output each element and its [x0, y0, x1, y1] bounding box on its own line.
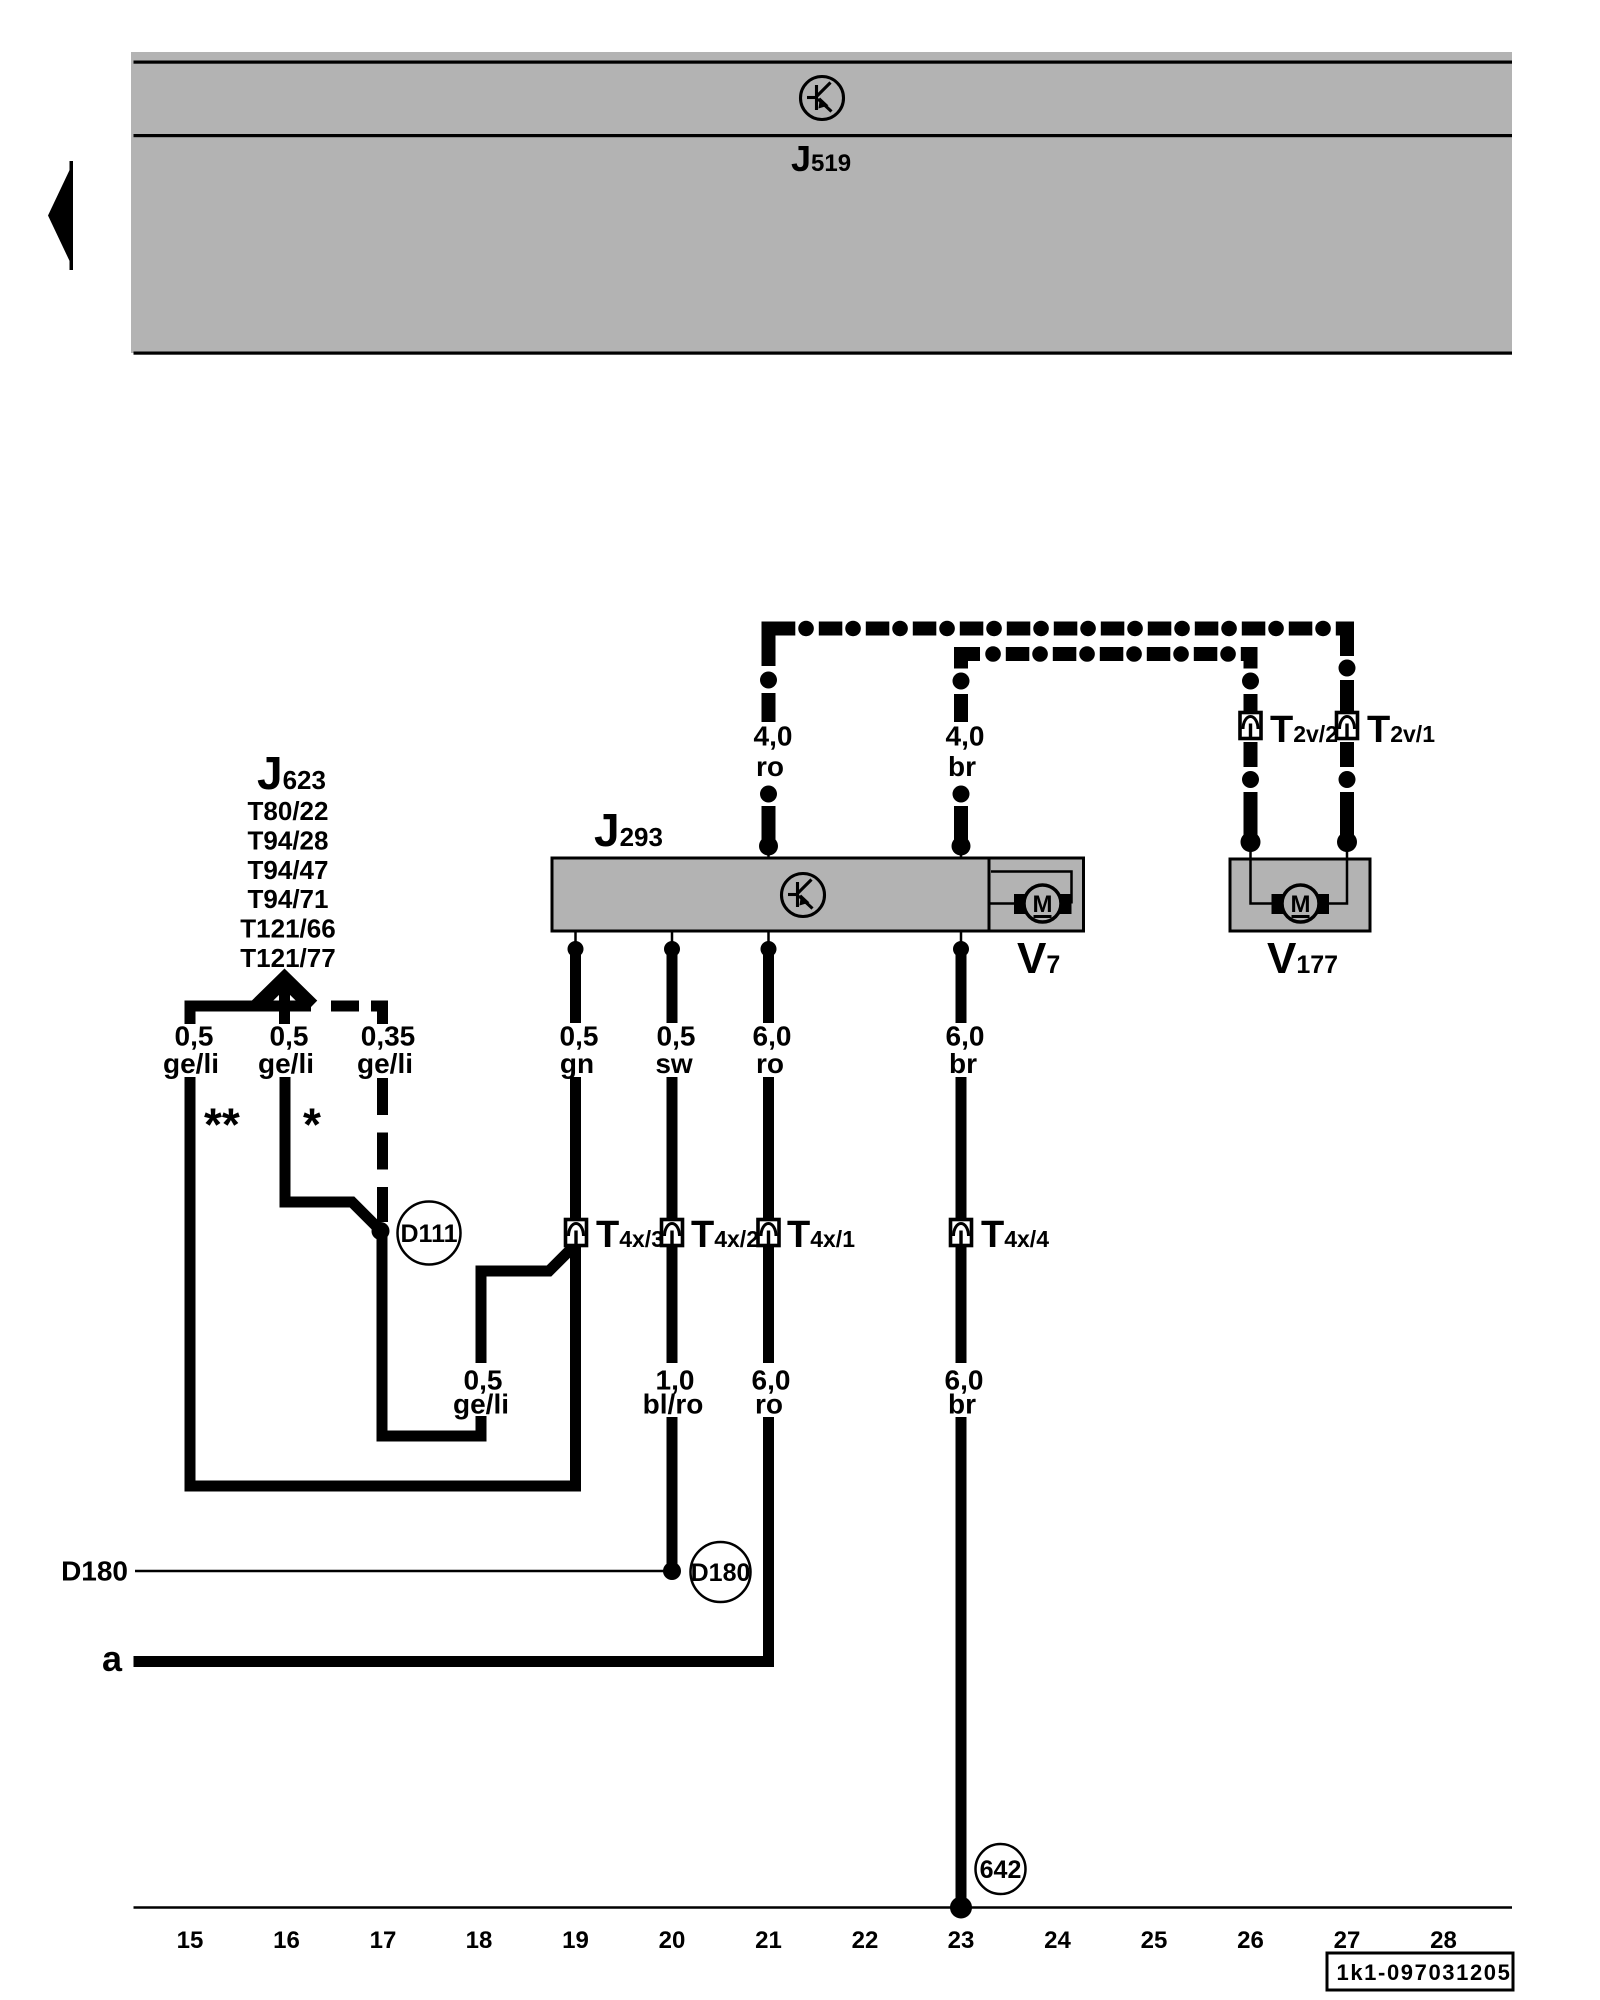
svg-text:4,0: 4,0	[946, 721, 985, 752]
connector T4x/3	[566, 1220, 587, 1246]
svg-text:ge/li: ge/li	[357, 1048, 413, 1079]
svg-text:T94/47: T94/47	[248, 855, 329, 885]
junction dot D180	[663, 1562, 681, 1580]
svg-text:15: 15	[177, 1927, 204, 1954]
wire to T2v/2 (track 26)	[1241, 647, 1261, 860]
thin wire from D180 label to junction	[135, 1570, 664, 1573]
control unit J519 box	[131, 52, 1512, 355]
dash-dot bus line 2 (y=654)	[954, 647, 1258, 661]
svg-text:ge/li: ge/li	[258, 1048, 314, 1079]
svg-text:ro: ro	[756, 1048, 784, 1079]
diagram code box	[1327, 1953, 1513, 1990]
connector T4x/2	[662, 1220, 683, 1246]
ground node 642 circle	[976, 1844, 1026, 1894]
svg-text:D180: D180	[691, 1559, 751, 1587]
svg-text:T94/71: T94/71	[248, 884, 329, 914]
svg-text:**: **	[204, 1099, 240, 1151]
arrow marker (page-continuation triangle)	[48, 161, 73, 270]
svg-text:27: 27	[1334, 1927, 1361, 1954]
wire 0,35 ge/li dashed (track 17)	[377, 1078, 388, 1222]
svg-text:20: 20	[659, 1927, 686, 1954]
D111 location circle	[398, 1202, 461, 1265]
svg-text:21: 21	[755, 1927, 782, 1954]
connector T2v/1	[1337, 713, 1358, 739]
D180 location circle	[691, 1542, 751, 1602]
label J623 with pin list	[240, 747, 335, 973]
svg-text:br: br	[948, 751, 976, 782]
motor symbol V177	[1272, 885, 1330, 922]
svg-text:T121/66: T121/66	[240, 914, 335, 944]
svg-text:6,0: 6,0	[946, 1021, 985, 1052]
svg-text:19: 19	[562, 1927, 589, 1954]
svg-text:25: 25	[1141, 1927, 1168, 1954]
motor symbol V7	[1014, 885, 1072, 922]
wire 0,5 sw / 1,0 bl/ro (track 20)	[664, 931, 680, 1571]
svg-text:T121/77: T121/77	[240, 943, 335, 973]
motor V7 box (attached right of J293)	[989, 858, 1084, 931]
wire 0,5 gn (track 19) from J293	[568, 931, 584, 1220]
svg-text:642: 642	[980, 1856, 1022, 1884]
track numbers 15-28	[177, 1927, 1457, 1954]
svg-text:M: M	[1033, 891, 1053, 918]
svg-text:1k1-097031205: 1k1-097031205	[1337, 1960, 1512, 1985]
svg-text:ge/li: ge/li	[453, 1389, 509, 1420]
svg-text:bl/ro: bl/ro	[643, 1389, 704, 1420]
bottom rail line	[134, 1906, 1513, 1909]
svg-text:22: 22	[852, 1927, 879, 1954]
svg-text:br: br	[948, 1389, 976, 1420]
svg-text:6,0: 6,0	[753, 1021, 792, 1052]
svg-text:T94/28: T94/28	[248, 825, 329, 855]
J623 connector bar with arrow	[185, 979, 389, 1024]
wire 0,5 ge/li (track 18) up to T4x/3	[481, 1248, 572, 1363]
svg-text:br: br	[949, 1048, 977, 1079]
svg-text:18: 18	[466, 1927, 493, 1954]
svg-text:23: 23	[948, 1927, 975, 1954]
relay box J293	[552, 858, 989, 931]
svg-text:4,0: 4,0	[754, 721, 793, 752]
svg-text:T80/22: T80/22	[248, 796, 329, 826]
junction node at D111	[372, 1222, 390, 1240]
svg-text:ro: ro	[756, 751, 784, 782]
wire 4,0 br (vertical dash-dot, track 23)	[952, 647, 971, 858]
control-unit symbol inside J293	[782, 874, 825, 917]
svg-text:ro: ro	[755, 1389, 783, 1420]
svg-text:D111: D111	[400, 1220, 457, 1248]
wire 6,0 br (track 23) down to ground rail	[950, 931, 972, 1919]
wire 4,0 ro (vertical dash-dot, track 21)	[759, 622, 778, 859]
control-unit symbol inside J519	[801, 77, 844, 120]
wire to T2v/1 (track 27)	[1337, 622, 1357, 861]
svg-text:28: 28	[1430, 1927, 1457, 1954]
V7 internal wiring	[991, 872, 1072, 904]
connector T2v/2	[1240, 713, 1261, 739]
V177 internal wiring	[1251, 860, 1348, 904]
svg-text:a: a	[102, 1638, 123, 1679]
svg-text:26: 26	[1237, 1927, 1264, 1954]
connector T4x/4	[951, 1220, 972, 1246]
svg-text:24: 24	[1044, 1927, 1071, 1954]
svg-text:16: 16	[273, 1927, 300, 1954]
svg-text:0,5: 0,5	[560, 1021, 599, 1052]
motor V177 box	[1230, 859, 1370, 931]
svg-text:D180: D180	[61, 1556, 128, 1587]
svg-text:17: 17	[370, 1927, 397, 1954]
wire from D111 junction down and over to track 18	[382, 1231, 481, 1436]
svg-text:ge/li: ge/li	[163, 1048, 219, 1079]
svg-text:gn: gn	[560, 1048, 594, 1079]
wire 0,5 ge/li * (track 16) to D111 junction	[285, 1077, 380, 1230]
dash-dot bus line 1 (top, y=628.5)	[762, 622, 1354, 636]
svg-text:0,5: 0,5	[270, 1021, 309, 1052]
svg-text:sw: sw	[655, 1048, 693, 1079]
wire 6,0 ro (track 21) down to node a	[761, 931, 777, 1363]
wire 0,5 ge/li ** (track 15) + bottom run + gn riser	[190, 1077, 576, 1486]
svg-text:0,5: 0,5	[175, 1021, 214, 1052]
connector T4x/1	[758, 1220, 779, 1246]
svg-text:0,5: 0,5	[657, 1021, 696, 1052]
svg-text:M: M	[1291, 891, 1311, 918]
svg-text:0,35: 0,35	[361, 1021, 416, 1052]
svg-text:*: *	[303, 1099, 321, 1151]
